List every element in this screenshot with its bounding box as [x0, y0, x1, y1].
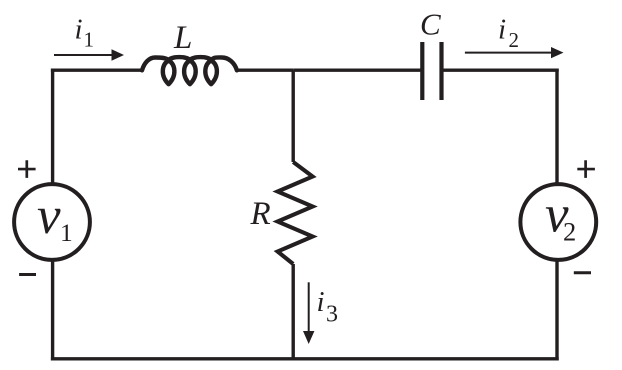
- svg-text:i: i: [75, 13, 83, 45]
- capacitor C (left plate): [420, 42, 424, 100]
- svg-text:2: 2: [509, 28, 520, 52]
- svg-text:v: v: [37, 187, 61, 245]
- current arrow i3: [303, 282, 314, 344]
- wire top-left segment (v1 top to inductor L): [51, 68, 142, 71]
- svg-text:1: 1: [60, 218, 73, 247]
- wire bottom segment (node B return): [51, 357, 559, 360]
- wire right vertical top (v2 positive lead): [555, 69, 558, 185]
- current arrow i2: [465, 47, 564, 58]
- wire top-right segment (C right plate to top-right corner): [444, 68, 559, 71]
- wire right vertical bottom (v2 negative lead): [555, 260, 558, 361]
- svg-text:3: 3: [326, 301, 338, 327]
- wire top-middle segment (L to node A junction): [237, 68, 293, 71]
- svg-text:i: i: [498, 14, 506, 46]
- v2 plus sign: [577, 160, 595, 178]
- wire left vertical top (v1 positive lead): [51, 69, 54, 185]
- wire middle vertical top (node A to resistor R): [292, 70, 295, 162]
- resistor R (zigzag): [278, 162, 313, 264]
- svg-text:L: L: [173, 20, 192, 56]
- v1 minus sign: [19, 273, 36, 276]
- current arrow i1: [54, 49, 124, 61]
- inductor L: [142, 57, 237, 84]
- wire left vertical bottom (v1 negative lead): [51, 260, 54, 361]
- svg-text:1: 1: [84, 27, 95, 51]
- wire node A (junction of L, C, R) to capacitor C left plate: [293, 68, 420, 71]
- voltage source v1 (circle): [14, 184, 90, 260]
- capacitor C (right plate): [439, 42, 443, 100]
- svg-text:i: i: [317, 286, 325, 318]
- v2 minus sign: [574, 271, 591, 274]
- wire middle vertical bottom (R to bottom wire node B): [292, 264, 295, 359]
- v1 plus sign: [18, 160, 36, 178]
- svg-text:R: R: [250, 196, 271, 232]
- svg-text:2: 2: [563, 217, 576, 247]
- voltage source v2 (circle): [520, 184, 596, 260]
- svg-text:C: C: [420, 7, 441, 42]
